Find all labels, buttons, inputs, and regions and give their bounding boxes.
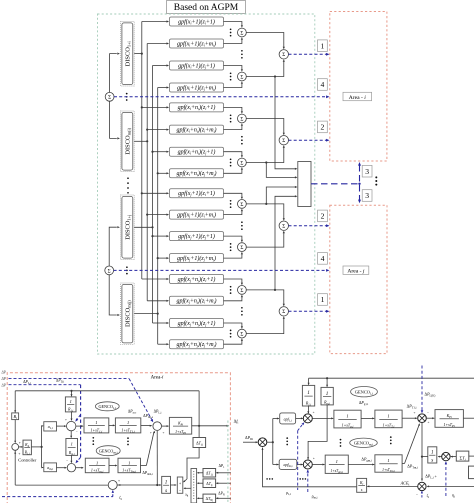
summer S2-2 (279, 136, 288, 145)
svg-text:KPi: KPi (446, 413, 452, 419)
wire frequency feedback (top horizontal) (15, 390, 199, 392)
svg-text:ΔPTm,i: ΔPTm,i (407, 463, 418, 469)
tag box 2 (area i) (318, 121, 328, 133)
svg-text:Σ: Σ (240, 245, 243, 251)
red dashed box Area-j (bottom) (330, 205, 387, 353)
svg-text:Σ: Σ (240, 202, 243, 208)
block 1/s (tie integrator, area i) (162, 476, 171, 494)
svg-text:gpf(xj+nj)(zi+1): gpf(xj+nj)(zi+1) (178, 276, 216, 283)
wire dashed input (lower) to governor summers (9, 385, 81, 464)
wire load summer down to ACE summer (right) (421, 423, 423, 482)
red dashed box Area-i (top) (330, 12, 387, 162)
block 1/R_mi (droop) (66, 439, 78, 456)
block gpf(xj+nj)(zj+mj) (170, 340, 224, 349)
wire summer right-2 to governor 2 block (312, 464, 325, 466)
node load summer (crossed, right) (418, 414, 427, 423)
svg-text:gpf(xj+nj)(zj+mj): gpf(xj+nj)(zj+mj) (176, 341, 216, 348)
svg-text:2: 2 (321, 123, 325, 132)
wire input from right edge into ACE summer (427, 485, 474, 487)
svg-text:1: 1 (431, 450, 434, 456)
signal 4 to Area-i (from S-left-i) (114, 95, 330, 98)
wire S-left-j to DISCO_m(j) (109, 275, 120, 316)
block gpf(xi+ni)(zi+mi) (170, 125, 224, 134)
wire governor summer 1 down to 1/R_mi (70, 431, 72, 438)
block DISCO_1+i (vertical) (121, 22, 135, 87)
svg-text:Bi: Bi (13, 414, 17, 420)
block turbine 1/(1+sT_T i) right (375, 410, 402, 429)
svg-text:ACEi: ACEi (400, 481, 410, 487)
svg-text:−: − (66, 459, 68, 463)
wire turbine row1 to load summer (402, 411, 429, 419)
svg-text:Σ: Σ (240, 160, 243, 166)
wire DISCO_m(j) output to bundle line 4 (134, 313, 159, 315)
svg-text:ΔTNj: ΔTNj (206, 497, 214, 502)
bundle vertical line 2 (146, 44, 148, 301)
label dP_N (tie input) (218, 491, 225, 496)
interface block (tie-line signal collector) (298, 162, 311, 207)
block gpf(xj+1)(zi+mi) (170, 210, 224, 219)
svg-text:1: 1 (71, 442, 73, 447)
dots between DISCO_1+i and DISCO_m(i) (126, 93, 128, 101)
bundle vertical line 1 (141, 22, 143, 280)
svg-text:Σ: Σ (240, 74, 243, 80)
block 1/R_1i (droop) (65, 397, 76, 412)
dots between S1-5 and S1-6 (241, 221, 243, 230)
ellipse GENCO_1i (right) (351, 387, 378, 397)
label dP_acc (128, 409, 137, 414)
block turbine TF 1/(1+sT_T1i) (115, 418, 140, 434)
block gpf(xi+ni)(zj+1) (170, 147, 224, 156)
svg-text:+: + (150, 431, 152, 435)
svg-text:gpf(xj+nj)(zi+mi): gpf(xj+nj)(zi+mi) (176, 298, 216, 305)
svg-text:+: + (18, 452, 20, 456)
svg-text:ΔPgm,i: ΔPgm,i (361, 456, 371, 462)
wire chain1 to main summer (141, 425, 152, 427)
svg-text:ΔPL(K): ΔPL(K) (425, 392, 436, 398)
signal 2 to Area-j (from S2-3) (289, 224, 330, 227)
block governor TF 1/(1+sT_1i) (84, 418, 109, 434)
label Controller (18, 457, 37, 462)
wire branch to gpf(xj+nj)(zj+1) (153, 322, 170, 324)
label dP_mmi (142, 471, 153, 476)
wire DISCO_1+i output to bundle line 1 (134, 53, 143, 55)
node eta summer (crossed, right) (442, 452, 450, 460)
block dT_ij (203, 479, 216, 488)
block gpf(xj+1)(zj+1) (170, 232, 224, 241)
tag box 4 (area i) (318, 79, 328, 91)
block governor 1/(1+sT_gm i) right (325, 455, 348, 473)
summer S1-5 (238, 200, 247, 209)
wire 1/R_1i to governor summer 1 (71, 412, 73, 421)
svg-text:gpf(xj+1)(zj+mj): gpf(xj+1)(zj+mj) (177, 255, 216, 262)
label Area-i (detailed) (151, 375, 164, 380)
svg-text:ΔPD,i: ΔPD,i (56, 379, 64, 384)
block B_i (bias) (12, 413, 19, 420)
svg-text:1+sTPi: 1+sTPi (444, 422, 455, 428)
wire load summer to power system block (right) (426, 417, 434, 419)
green dashed boundary (right model, clipped) (227, 421, 229, 503)
svg-text:gpf(xj+1)(zi+mi): gpf(xj+1)(zi+mi) (177, 211, 216, 218)
wire S-left-i to DISCO_m(i) (110, 101, 120, 139)
label dP_T1i (407, 404, 417, 410)
node governor summer right-2 (crossed) (303, 456, 315, 469)
block turbine 1/(1+sT_Tm i) right (375, 455, 402, 473)
wire sumT input from edge (469, 455, 474, 457)
wire 1/R_1i into summer right-1 (307, 406, 309, 414)
summing node S-left-j (demand split, area j) (105, 266, 114, 275)
block gpf(xj+nj)(zj+1) (170, 319, 224, 328)
block dT_ij (tie coefficient) (193, 438, 206, 448)
svg-text:ΔPL,i: ΔPL,i (23, 380, 31, 385)
summer S1-4 (238, 158, 247, 167)
wire gpf(xi+1)(zi+1) output to summer S1-1 (224, 22, 244, 28)
label dP_g1i (359, 400, 369, 406)
block gpf(xj+1)(zi+1) (170, 189, 224, 198)
tag box 1 (area i) (318, 40, 328, 52)
summer S1-7 (238, 286, 247, 295)
dots between governor rows (right) (340, 439, 342, 447)
label dP_Di input (245, 435, 253, 441)
signal 4 to Area-j (from S-left-j) (114, 269, 330, 272)
wire chain2 block1 to block2 (109, 465, 117, 467)
dots at inputs of S1-4 (230, 158, 232, 166)
wire DISCO_m(i) output to bundle line 2 (134, 140, 148, 142)
svg-text:ΔP: ΔP (1, 377, 7, 381)
wire branch to gpf(xj+1)(zi+mi) (146, 214, 169, 216)
tag box 4 (area j) (318, 253, 328, 265)
svg-text:3: 3 (365, 191, 369, 200)
wire turbine row2 diagonal to load summer (402, 411, 429, 464)
rho_mi dashed (lower) (307, 470, 310, 492)
tag box 2 (area j) (318, 210, 328, 222)
svg-text:1: 1 (321, 295, 325, 304)
block 1/R_mi (right) (321, 387, 333, 405)
wire gpf(xj+1)(zj+mj) output to summer S1-6 (224, 252, 244, 258)
block a_mi (participation) (44, 463, 57, 472)
wire dT_ij to collector (197, 482, 203, 484)
wire dP_Di into distribution node (243, 441, 258, 443)
svg-text:1: 1 (346, 414, 348, 419)
dots between rho lines (299, 478, 306, 480)
svg-text:gpf(xj+nj)(zj+1): gpf(xj+nj)(zj+1) (178, 320, 216, 327)
wire gpf(xj+1)(zi+mi) output to summer S1-5 (224, 209, 244, 215)
block 1/s (right) (428, 447, 437, 464)
ellipse GENCO_1i (area i) (95, 402, 119, 411)
label dP_Di (56, 379, 64, 384)
svg-text:−: − (76, 430, 78, 434)
svg-text:+: + (428, 420, 430, 424)
wire distribution to participation factors (267, 418, 280, 466)
block governor TF 1/(1+sT_mi) (85, 458, 109, 474)
svg-text:1: 1 (336, 459, 338, 464)
svg-text:apfm,i: apfm,i (284, 462, 293, 468)
dots between apf blocks (286, 437, 288, 445)
svg-text:ρ1,i: ρ1,i (286, 490, 291, 496)
label dP_Tmi (407, 463, 418, 469)
svg-text:Σ: Σ (240, 288, 243, 294)
summer S1-8 (238, 329, 247, 338)
title box: Based on AGPM (167, 1, 246, 14)
dots between S1-1 and S1-2 (241, 50, 243, 59)
svg-text:1: 1 (127, 420, 129, 425)
dots between GENCO chains (left) (92, 437, 94, 445)
tag box 3 (upper) (362, 165, 372, 177)
block gpf(xj+nj)(zi+mi) (170, 296, 224, 305)
svg-text:1: 1 (387, 458, 389, 463)
bundle vertical line 3 (152, 66, 154, 324)
svg-text:ΔPL,i: ΔPL,i (154, 409, 162, 414)
wire S1-4 to summer S2-2 (246, 145, 285, 163)
wire gpf(xi+1)(zj+1) output to summer S1-2 (224, 66, 244, 72)
wire tie feedback up into ACE summer (14, 450, 16, 485)
svg-text:gpf(xi+1)(zj+1): gpf(xi+1)(zj+1) (178, 62, 215, 69)
wire branch to gpf(xi+1)(zj+1) (153, 64, 170, 66)
wire tie input 2 from boundary (216, 482, 231, 484)
wire zeta summer to 1/s (117, 484, 161, 486)
summer S1-2 (238, 72, 247, 81)
node governor summer right-1 (crossed) (303, 410, 314, 423)
block apf_mi (279, 459, 297, 469)
wire branch to gpf(xi+1)(zi+mi) (147, 42, 169, 44)
svg-text:gpf(xi+ni)(zi+1): gpf(xi+ni)(zi+1) (178, 104, 216, 111)
tag box 3 (lower) (362, 190, 372, 202)
wire ACE feedback up into distribution node (262, 448, 357, 487)
svg-text:Controller: Controller (18, 457, 37, 462)
svg-text:Σ: Σ (108, 268, 111, 274)
block gpf(xi+1)(zi+1) (170, 17, 224, 26)
svg-text:ρm,i: ρm,i (312, 493, 318, 499)
block dT_Nj (203, 494, 216, 503)
signal 2 to Area-i (from S2-2) (289, 139, 330, 142)
svg-text:+: + (414, 411, 416, 415)
block clipped at right edge (469, 466, 474, 479)
block sum T_ij (456, 451, 469, 461)
svg-text:ΔPT1,i: ΔPT1,i (407, 404, 417, 410)
svg-text:s: s (431, 458, 433, 464)
block gpf(xj+nj)(zi+1) (170, 275, 224, 284)
wire gpf(xj+1)(zi+1) output to summer S1-5 (224, 193, 244, 199)
svg-text:Rm,i: Rm,i (68, 451, 75, 456)
block apf_1i (280, 413, 296, 424)
wire main summer down to tie line (156, 431, 158, 485)
svg-text:ΔT1j: ΔT1j (206, 471, 213, 476)
block 1/R_1i (right) (302, 385, 314, 406)
svg-text:−: − (151, 416, 153, 420)
wire dP_Li dashed input (upper) (9, 379, 154, 423)
wire gpf(xi+1)(zi+mi) output to summer S1-1 (224, 37, 244, 43)
dots between GENCO chains (right) (127, 437, 129, 445)
dots between S1-7 and S1-8 (241, 307, 243, 316)
wire S1-2 to summer S2-1 (246, 59, 285, 77)
wire gpf(xj+nj)(zi+mi) output to summer S1-7 (224, 295, 244, 301)
wire governor 1 to chain 1 (76, 425, 84, 427)
svg-text:ΔTij: ΔTij (206, 482, 212, 487)
dots between turbine rows (right) (390, 436, 392, 444)
dots between S1-3 and S1-4 (241, 136, 243, 145)
block K_i/s (integral controller) (357, 478, 367, 492)
wire output down to tie-line coefficient (198, 426, 200, 437)
block controller K_A/R_1-i (23, 440, 31, 455)
svg-text:Ki: Ki (359, 481, 364, 486)
summer S2-4 (279, 307, 288, 316)
svg-text:Σ: Σ (240, 30, 243, 36)
wire group 2 tap to interface block (266, 163, 297, 179)
svg-text:Σ: Σ (240, 116, 243, 122)
block power system K_Pi/(1+sT_Pi) (169, 417, 191, 434)
dots left of rho lines (266, 478, 273, 480)
svg-text:KPi: KPi (177, 421, 183, 426)
svg-text:ηi: ηi (452, 493, 455, 499)
svg-text:1+sTgm,i: 1+sTgm,i (331, 469, 344, 474)
wire S1-6 to summer S2-3 (246, 231, 285, 248)
block plus-minus (tie compare) (177, 477, 183, 493)
svg-text:gpf(xi+ni)(zj+mj): gpf(xi+ni)(zj+mj) (176, 170, 216, 177)
wire collector to plus-minus box (183, 487, 191, 489)
svg-text:DISCO1+j: DISCO1+j (124, 215, 131, 240)
svg-text:−: − (427, 411, 429, 415)
svg-text:Σ: Σ (282, 224, 285, 230)
svg-text:+: + (19, 441, 21, 445)
wire branch to gpf(xi+ni)(zj+1) (151, 151, 169, 153)
wire frequency feedback up from output (198, 391, 200, 426)
label dP_Li at summer (154, 409, 162, 414)
svg-text:ΔP: ΔP (1, 384, 7, 388)
svg-text:a1,i: a1,i (48, 424, 53, 430)
summer main (generation vs load, area i) (150, 416, 165, 435)
wire gpf(xj+nj)(zj+mj) output to summer S1-8 (224, 338, 244, 344)
label rho_1i (286, 490, 291, 496)
svg-text:ζi: ζi (119, 495, 122, 501)
label box Area-i (343, 92, 372, 101)
label dP_gmi (361, 456, 371, 462)
svg-text:ΔPg1,i: ΔPg1,i (359, 400, 369, 406)
bundle vertical line 4 (157, 88, 159, 345)
blue dashed eta_i input (445, 461, 447, 496)
svg-text:1: 1 (70, 399, 72, 404)
block gpf(xj+1)(zj+mj) (170, 254, 224, 263)
wire feedback down to 1/R_1i (right) (308, 378, 310, 385)
svg-text:R1,i: R1,i (305, 401, 311, 406)
wire governor 2 to chain 2 (76, 467, 84, 469)
blue dashed zeta_i into ACE summer (right) (416, 491, 423, 498)
svg-text:4: 4 (321, 80, 325, 89)
wire feedback down to 1/R_mi (right) (326, 378, 328, 387)
summer S2-3 (279, 221, 288, 230)
wire ACE to controller (19, 446, 23, 448)
label zeta_i (119, 495, 122, 501)
label df_i (234, 419, 239, 425)
dots at inputs of S1-6 (230, 243, 232, 251)
svg-text:gpf(xj+1)(zj+1): gpf(xj+1)(zj+1) (178, 233, 215, 240)
svg-text:am,i: am,i (47, 465, 53, 471)
svg-text:ΔP1: ΔP1 (219, 464, 226, 469)
label box Area-j (343, 266, 369, 275)
wire branch to gpf(xj+1)(zi+1) (141, 192, 169, 194)
wire gpf(xj+nj)(zj+1) output to summer S1-8 (224, 323, 244, 329)
svg-text:ΔPacc: ΔPacc (128, 409, 137, 414)
label dP_L(K) (425, 392, 436, 398)
svg-text:Σ: Σ (282, 309, 285, 315)
block gpf(xi+1)(zi+mi) (170, 39, 224, 48)
label dP_Li (23, 380, 31, 385)
wire B_i to ACE summer (14, 420, 16, 444)
wire feedback down to B block (14, 391, 16, 413)
svg-text:1: 1 (96, 460, 98, 465)
svg-text:DISCO1+i: DISCO1+i (124, 40, 131, 66)
wire 1/R_mi dogleg into summer right-2 (307, 405, 327, 460)
wire a_1i to governor summer 1 (57, 425, 67, 427)
svg-text:1+sTPi: 1+sTPi (175, 430, 186, 435)
svg-text:+: + (65, 418, 67, 422)
node distribution (crossed circle) (258, 438, 267, 447)
dots between DISCO_m(i) and DISCO_1+j (127, 177, 129, 193)
wire governor 2 to turbine 2 (right) (348, 464, 374, 466)
svg-text:+: + (118, 479, 120, 483)
signal 1 to Area-i (from S2-1) (289, 53, 330, 56)
label dP_m1i (143, 414, 153, 419)
dots at inputs of S1-8 (230, 330, 232, 338)
signal 1 to Area-j (from S2-4) (289, 310, 330, 313)
tag box 1 (area j) (318, 294, 328, 306)
wire gpf(xi+1)(zj+mj) output to summer S1-2 (224, 81, 244, 87)
svg-text:R1,i: R1,i (24, 451, 30, 456)
wire group 3 tap to interface block (265, 186, 297, 205)
block a_1i (participation) (44, 422, 57, 431)
svg-text:2: 2 (321, 212, 325, 221)
svg-text:KA: KA (24, 443, 30, 448)
svg-text:Σ: Σ (282, 52, 285, 58)
dots between tag boxes 3 (375, 176, 377, 185)
clipped input labels at left edge (1, 371, 7, 388)
label eta_i (452, 493, 455, 499)
block turbine TF 1/(1+sT_Tmi) (118, 458, 141, 474)
svg-text:Δfi: Δfi (234, 419, 239, 425)
svg-text:ΔPDi: ΔPDi (245, 435, 253, 441)
svg-text:DISCOm(j): DISCOm(j) (124, 300, 131, 327)
wire frequency feedback top (right model) (309, 377, 474, 379)
svg-text:gpf(xi+ni)(zi+mi): gpf(xi+ni)(zi+mi) (176, 126, 216, 133)
svg-text:gpf(xi+1)(zi+1): gpf(xi+1)(zi+1) (178, 18, 215, 25)
blue dashed zeta_i input (2, 490, 114, 497)
summer governor-2 (area i) (67, 464, 75, 472)
dots at inputs of S1-2 (230, 72, 232, 80)
svg-text:Based on AGPM: Based on AGPM (174, 3, 239, 13)
svg-text:gpf(xi+ni)(zj+1): gpf(xi+ni)(zj+1) (178, 149, 216, 156)
wire S1-5 to summer S2-3 (246, 204, 285, 221)
svg-text:1: 1 (165, 480, 168, 486)
summer zeta (tie + scheduled, area i) (108, 479, 120, 490)
wire 1/s to plus-minus box (171, 484, 177, 486)
block DISCO_m(j) (vertical) (121, 283, 135, 344)
block governor 1/(1+sT_g i) right (334, 410, 361, 429)
svg-text:ΔPN: ΔPN (218, 491, 225, 496)
wire tie input 3 from boundary (216, 497, 231, 499)
svg-text:Σ: Σ (240, 332, 243, 338)
wire branch to gpf(xj+nj)(zi+mi) (147, 300, 169, 302)
green dashed boundary box (AGPM) (98, 14, 315, 354)
wire feedback down to droop 1/R_1i (71, 391, 73, 397)
wire branch to gpf(xi+ni)(zi+mi) (146, 129, 169, 131)
label delta-h at collector (185, 493, 189, 498)
wire DISCO_1+j output to bundle line 3 (134, 226, 153, 228)
svg-text:Σ: Σ (108, 95, 111, 101)
wire ACE tie-line feedback (bottom horizontal left) (15, 484, 108, 486)
wire S1-3 to summer S2-2 (246, 119, 285, 136)
wire ACE summer to K_i/s (367, 485, 418, 487)
wire S1-1 to summer S2-1 (246, 33, 285, 50)
svg-text:4: 4 (321, 254, 325, 263)
dots between DISCO_1+j and DISCO_m(j) (126, 266, 128, 274)
